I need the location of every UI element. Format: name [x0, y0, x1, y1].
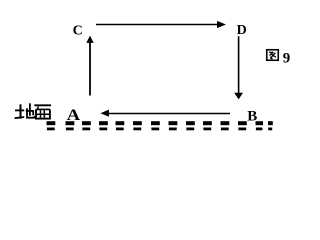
label 地 (ground text, char 1) [15, 103, 35, 118]
node C label [73, 24, 83, 39]
svg-text:9: 9 [283, 51, 291, 67]
svg-text:C: C [73, 24, 83, 39]
figure label 9 [283, 51, 291, 67]
ground hatch row 1 (dashes) [47, 121, 273, 125]
node A label [67, 107, 81, 124]
label 面 (ground text, char 2) [34, 105, 51, 119]
wire arrow B to A (bottom, pointing left) [100, 110, 230, 117]
ground hatch row 2 (dashes) [47, 128, 272, 131]
wire arrow C to D (top, pointing right) [96, 21, 226, 28]
figure label 图 (glyph box) [267, 50, 279, 61]
svg-text:D: D [237, 23, 247, 38]
wire arrow D to B (right, pointing down) [234, 36, 243, 99]
wire arrow A to C (left, pointing up) [86, 36, 93, 96]
node D label [237, 23, 247, 38]
node B label [247, 108, 257, 124]
